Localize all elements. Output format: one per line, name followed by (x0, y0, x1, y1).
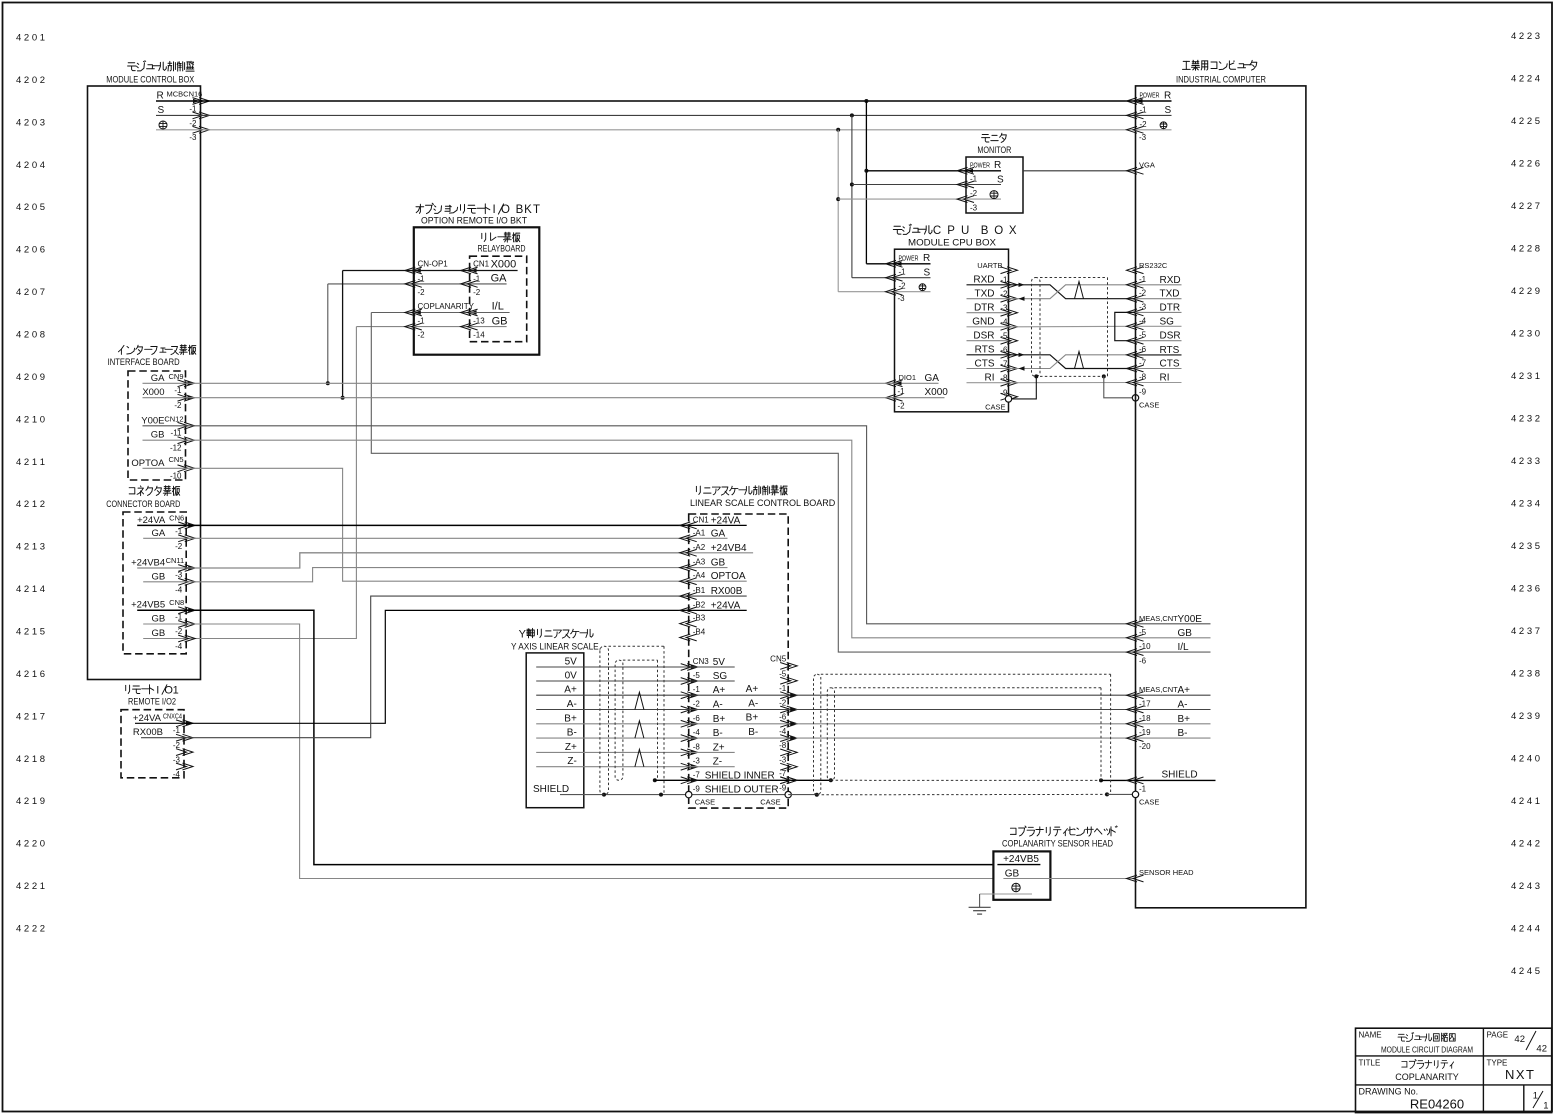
wire earth drop to monitor and CPU (837, 130, 839, 292)
remote pin +24VA CNXC4 (135, 722, 184, 724)
computer pin VGA (1127, 167, 1144, 174)
svg-text:4 2 3 0: 4 2 3 0 (1511, 329, 1540, 340)
svg-text:-20: -20 (1139, 742, 1151, 751)
svg-text:MCBCN16: MCBCN16 (167, 90, 203, 99)
svg-text:GA: GA (491, 273, 508, 285)
svg-text:T: T (533, 204, 540, 216)
svg-text:CASE: CASE (985, 403, 1005, 412)
svg-text:I: I (156, 685, 159, 697)
linear board pin -A4 OPTOA (680, 578, 697, 585)
computer pin -18 B+ (1127, 720, 1144, 727)
svg-text:POWER: POWER (970, 160, 990, 169)
option remote I/O BKT outline (414, 227, 540, 354)
svg-text:CASE: CASE (695, 798, 715, 807)
svg-text:X000: X000 (142, 387, 164, 398)
title block column divider (1482, 1028, 1484, 1112)
svg-text:GA: GA (151, 528, 165, 539)
remote I/O dashed outline (121, 710, 184, 778)
twist symbol A pair (635, 692, 644, 709)
svg-text:O: O (501, 204, 510, 216)
svg-text:ア: ア (711, 486, 722, 498)
wire RXD crossover (1009, 285, 1136, 299)
connector pin GA -1 (143, 537, 186, 539)
svg-text:CNXC4: CNXC4 (163, 711, 182, 720)
svg-text:-6: -6 (779, 713, 787, 722)
junction earth monitor tap (836, 197, 840, 201)
svg-text:K: K (524, 204, 532, 216)
svg-text:RTS: RTS (1160, 345, 1180, 356)
linear scale control board JP title (695, 486, 697, 491)
svg-text:GB: GB (711, 558, 726, 569)
svg-text:-B1: -B1 (693, 586, 706, 595)
svg-text:-A2: -A2 (693, 543, 706, 552)
linear board pin -A3 GB (680, 564, 697, 571)
svg-text:R: R (157, 91, 164, 102)
computer pin -10 I/L (1127, 649, 1144, 656)
svg-text:-10: -10 (1139, 642, 1151, 651)
svg-text:COPLANARITY: COPLANARITY (1395, 1072, 1459, 1082)
svg-text:MEAS,CNT: MEAS,CNT (1139, 685, 1178, 694)
scale cable shield inner box (623, 659, 658, 661)
wire GB-3 route (186, 568, 689, 582)
connector board dashed outline (123, 512, 186, 654)
title block small column divider (1523, 1085, 1525, 1113)
svg-text:CN8: CN8 (169, 598, 184, 607)
svg-text:VGA: VGA (1139, 160, 1155, 169)
svg-text:SHIELD: SHIELD (533, 784, 569, 795)
computer pin -19 B- (1127, 735, 1144, 742)
interface pin GB -11 (143, 439, 186, 441)
svg-text:4 2 3 2: 4 2 3 2 (1511, 414, 1540, 425)
wire B+ through board (689, 723, 789, 725)
wire A+ to computer (788, 694, 1135, 696)
svg-text:4 2 1 4: 4 2 1 4 (16, 584, 45, 595)
svg-text:-1: -1 (970, 175, 978, 184)
svg-text:4 2 1 5: 4 2 1 5 (16, 627, 45, 638)
svg-text:A+: A+ (564, 685, 577, 696)
wire A+ through board (689, 694, 789, 696)
computer pin -8 RI (1127, 379, 1144, 386)
svg-text:-6: -6 (1139, 656, 1147, 665)
svg-text:A+: A+ (746, 684, 759, 695)
svg-text:S: S (158, 105, 165, 116)
linear scale control board dashed outline (689, 514, 789, 808)
twist symbol RTS/CTS pair (1075, 352, 1084, 369)
title block row divider 1 (1356, 1055, 1552, 1057)
svg-text:GB: GB (151, 571, 165, 582)
svg-text:CASE: CASE (1139, 401, 1159, 410)
svg-text:4 2 2 5: 4 2 2 5 (1511, 116, 1540, 127)
title block title JP (1402, 1062, 1407, 1068)
svg-text:-3: -3 (175, 570, 183, 579)
svg-text:4 2 1 0: 4 2 1 0 (16, 414, 45, 425)
module control box JP title (128, 62, 135, 64)
svg-text:GB: GB (151, 430, 165, 441)
svg-text:-8: -8 (693, 742, 701, 751)
scale cable shield outer capsule (600, 646, 609, 794)
right cable shield inner capsule (827, 688, 834, 781)
wire R power bus (201, 100, 1136, 102)
svg-text:REMOTE I/O2: REMOTE I/O2 (128, 697, 176, 708)
svg-text:X: X (1009, 225, 1017, 237)
wire Y00E route to computer (186, 426, 1136, 624)
svg-text:-4: -4 (1139, 316, 1147, 325)
junction S monitor tap (850, 183, 854, 187)
svg-text:-2: -2 (473, 288, 481, 297)
svg-text:-4: -4 (173, 770, 181, 779)
svg-text:-1: -1 (173, 726, 181, 735)
computer pin -1 S (1127, 112, 1144, 119)
computer pin SHIELD (1127, 777, 1144, 784)
svg-text:Z-: Z- (713, 757, 722, 768)
cpu pin UARTB -2 TXD (967, 298, 1009, 300)
svg-text:+24VA: +24VA (137, 515, 166, 526)
svg-text:4 2 0 3: 4 2 0 3 (16, 117, 45, 128)
wire monitor VGA (1023, 170, 1136, 172)
svg-text:42: 42 (1514, 1034, 1525, 1045)
cpu pin UARTB -6 RTS (967, 354, 1009, 356)
computer pin -5 DSR (1127, 337, 1144, 344)
svg-text:RELAYBOARD: RELAYBOARD (478, 244, 526, 255)
cn5 connector pins (780, 663, 797, 670)
svg-text:R: R (923, 253, 930, 264)
svg-text:CONNECTOR BOARD: CONNECTOR BOARD (106, 499, 180, 510)
module cpu box JP title (894, 225, 900, 227)
svg-text:RE04260: RE04260 (1410, 1097, 1464, 1112)
svg-text:U: U (961, 225, 969, 237)
y axis linear scale outline (526, 653, 584, 808)
coplanarity sensor head JP title (1010, 828, 1016, 834)
svg-text:INDUSTRIAL COMPUTER: INDUSTRIAL COMPUTER (1176, 75, 1266, 86)
right cable shield outer box (821, 673, 1111, 675)
svg-text:4 2 0 9: 4 2 0 9 (16, 372, 45, 383)
computer pin -2 earth (1127, 126, 1144, 133)
svg-text:Z+: Z+ (565, 742, 577, 753)
svg-text:4 2 4 0: 4 2 4 0 (1511, 754, 1540, 765)
connector pin GB -1 (143, 623, 186, 625)
svg-text:DIO1: DIO1 (899, 373, 917, 382)
rs232 cable shield capsule (1032, 278, 1041, 377)
svg-text:MEAS,CNT: MEAS,CNT (1139, 614, 1178, 623)
svg-text:-3: -3 (1139, 302, 1147, 311)
svg-text:DSR: DSR (1160, 331, 1181, 342)
svg-text:-5: -5 (1139, 628, 1147, 637)
control box pin R MCBCN16 (156, 100, 201, 102)
wire A- through board (689, 709, 789, 711)
svg-text:RS232C: RS232C (1139, 261, 1168, 270)
computer pin -5 GB (1127, 634, 1144, 641)
svg-text:GB: GB (1178, 628, 1193, 639)
svg-text:-2: -2 (1139, 289, 1147, 298)
svg-text:CN5: CN5 (770, 655, 787, 664)
svg-text:-18: -18 (1139, 714, 1151, 723)
svg-text:A+: A+ (713, 685, 726, 696)
svg-text:-1: -1 (779, 684, 787, 693)
svg-text:-5: -5 (693, 671, 701, 680)
svg-text:-7: -7 (693, 770, 701, 779)
svg-text:4 2 1 2: 4 2 1 2 (16, 499, 45, 510)
wire coplanarity I/L route (371, 313, 1135, 653)
svg-text:B-: B- (748, 727, 758, 738)
svg-text:Y AXIS LINEAR SCALE,: Y AXIS LINEAR SCALE, (511, 642, 601, 652)
wire shield outer (560, 794, 788, 796)
svg-text:-2: -2 (1140, 120, 1148, 129)
wire sensor earth to ground (979, 894, 981, 907)
twist symbol B pair (635, 721, 644, 738)
svg-text:GB: GB (151, 628, 165, 639)
svg-text:4 2 3 7: 4 2 3 7 (1511, 626, 1540, 637)
svg-text:-2: -2 (898, 402, 906, 411)
remote I/O1 JP title (125, 685, 127, 690)
svg-text:Y00E: Y00E (141, 415, 164, 426)
cpu pin UARTB -1 RXD (967, 284, 1009, 286)
svg-text:S: S (1165, 105, 1172, 116)
svg-text:Z+: Z+ (713, 742, 725, 753)
svg-text:ア: ア (552, 629, 563, 641)
svg-text:4 2 0 7: 4 2 0 7 (16, 287, 45, 298)
svg-text:SG: SG (1160, 316, 1175, 327)
svg-text:INTERFACE BOARD: INTERFACE BOARD (108, 357, 180, 368)
wire +24VB4 route (186, 553, 689, 568)
svg-text:-8: -8 (779, 741, 787, 750)
svg-text:-A1: -A1 (693, 528, 706, 537)
wire X000 to cpu (186, 397, 895, 399)
svg-text:POWER: POWER (1140, 91, 1160, 100)
linear board pin -B3 (680, 620, 697, 627)
sensor head earth pin (1012, 883, 1020, 891)
svg-text:4 2 3 1: 4 2 3 1 (1511, 371, 1540, 382)
svg-text:4 2 4 3: 4 2 4 3 (1511, 881, 1540, 892)
svg-text:4 2 1 9: 4 2 1 9 (16, 796, 45, 807)
svg-text:CASE: CASE (1139, 797, 1159, 806)
svg-text:4 2 3 4: 4 2 3 4 (1511, 499, 1540, 510)
remote pin RX00B -1 (141, 737, 184, 739)
connector pin GB -2 (143, 638, 186, 640)
svg-text:A+: A+ (1178, 685, 1191, 696)
svg-text:PAGE: PAGE (1487, 1031, 1509, 1040)
svg-text:GA: GA (151, 373, 165, 384)
svg-text:GB: GB (151, 614, 165, 625)
svg-text:4 2 4 5: 4 2 4 5 (1511, 966, 1540, 977)
svg-text:UARTB: UARTB (977, 261, 1002, 270)
svg-text:-6: -6 (693, 714, 701, 723)
interface pin GA CN9 (143, 382, 186, 384)
svg-text:-5: -5 (1139, 331, 1147, 340)
svg-text:4 2 1 7: 4 2 1 7 (16, 711, 45, 722)
svg-text:-1: -1 (1139, 275, 1147, 284)
computer CASE circle top (1132, 395, 1138, 401)
svg-text:CN5: CN5 (168, 455, 183, 464)
svg-text:SENSOR HEAD: SENSOR HEAD (1139, 868, 1194, 877)
svg-text:B-: B- (567, 728, 577, 739)
interface board dashed outline (128, 371, 186, 480)
wire +24VA to linear board (186, 524, 689, 526)
svg-text:-B3: -B3 (693, 614, 706, 623)
svg-text:CN9: CN9 (168, 372, 183, 381)
arrow RTS out of cpu (1019, 353, 1025, 357)
linear board pin -A1 GA (680, 535, 697, 542)
svg-text:B-: B- (1178, 728, 1188, 739)
ground symbol (969, 906, 991, 908)
svg-text:COPLANARITY SENSOR HEAD: COPLANARITY SENSOR HEAD (1002, 839, 1113, 849)
svg-text:CTS: CTS (975, 358, 995, 369)
svg-text:DSR: DSR (973, 331, 994, 342)
svg-text:B: B (981, 225, 989, 237)
svg-text:4 2 2 7: 4 2 2 7 (1511, 201, 1540, 212)
svg-text:-2: -2 (175, 542, 183, 551)
computer pin -17 A- (1127, 706, 1144, 713)
svg-text:+24VB5: +24VB5 (1003, 854, 1039, 865)
wire A- to computer (788, 709, 1135, 711)
wire GA to linear board (186, 537, 689, 539)
wire RX00B route (184, 596, 689, 738)
svg-text:I/L: I/L (1178, 642, 1190, 653)
svg-text:CTS: CTS (1160, 359, 1180, 370)
svg-text:+24VB4: +24VB4 (711, 543, 747, 554)
svg-text:Y: Y (519, 629, 527, 641)
svg-text:-3: -3 (779, 756, 787, 765)
monitor pin -1 S (852, 184, 966, 186)
svg-text:4 2 0 8: 4 2 0 8 (16, 330, 45, 341)
wire +24VB5 route to sensor head (186, 610, 993, 864)
svg-text:OPTOA: OPTOA (131, 458, 165, 469)
cpu pin UARTB -5 DSR (967, 340, 1009, 342)
svg-text:RI: RI (985, 373, 995, 384)
svg-text:-1: -1 (1140, 105, 1148, 114)
wire B- to computer (788, 737, 1135, 739)
svg-text:GA: GA (925, 373, 940, 384)
wire GND-SG (1009, 325, 1136, 328)
linear board pin -B1 RX00B (680, 593, 697, 600)
svg-text:A-: A- (567, 699, 577, 710)
svg-text:I/L: I/L (492, 301, 504, 313)
svg-text:-2: -2 (693, 700, 701, 709)
svg-text:O: O (994, 225, 1003, 237)
svg-text:4 2 0 1: 4 2 0 1 (16, 33, 45, 44)
title block name JP (1399, 1033, 1405, 1035)
svg-text:-3: -3 (1139, 133, 1147, 142)
svg-text:CN-OP1: CN-OP1 (418, 260, 449, 269)
svg-text:CN1: CN1 (693, 515, 710, 524)
svg-text:COPLANARITY: COPLANARITY (418, 302, 475, 311)
linear board pin -B4 (680, 634, 697, 641)
wire shield inner (653, 778, 657, 782)
wire B- through board (689, 737, 789, 739)
svg-text:4 2 0 5: 4 2 0 5 (16, 202, 45, 213)
scale cable shield inner capsule (615, 660, 623, 780)
linear board pin -B2 +24VA (680, 607, 697, 614)
svg-text:4 2 2 4: 4 2 2 4 (1511, 74, 1540, 85)
wire RI (1009, 382, 1136, 384)
svg-text:-2: -2 (174, 401, 182, 410)
svg-text:4 2 2 1: 4 2 2 1 (16, 881, 45, 892)
svg-text:4 2 3 6: 4 2 3 6 (1511, 584, 1540, 595)
svg-text:+24VA: +24VA (711, 600, 741, 611)
arrow TXD into cpu (1019, 297, 1025, 301)
svg-text:TITLE: TITLE (1359, 1059, 1381, 1068)
relayboard JP title (481, 233, 483, 238)
svg-text:RX00B: RX00B (133, 727, 163, 738)
svg-text:CN11: CN11 (166, 556, 185, 565)
wire shield outer dotted extension (817, 793, 1111, 795)
cpu pin CASE (1005, 396, 1011, 402)
svg-text:4 2 0 6: 4 2 0 6 (16, 245, 45, 256)
svg-text:4 2 0 4: 4 2 0 4 (16, 160, 45, 171)
wire CN-OP1 to CN1 X000 (343, 270, 470, 272)
wire COPLANARITY to I/L (371, 312, 469, 314)
coplanarity sensor head outline (993, 851, 1050, 899)
svg-text:B+: B+ (1178, 714, 1191, 725)
svg-text:-1: -1 (175, 613, 183, 622)
linear board pin CN1 +24VA (680, 522, 697, 529)
computer pin MEAS,CNT A+ (1127, 692, 1144, 699)
svg-text:-2: -2 (970, 189, 978, 198)
svg-text:4 2 2 6: 4 2 2 6 (1511, 159, 1540, 170)
svg-text:-2: -2 (779, 698, 787, 707)
wire earth power bus (201, 129, 1136, 131)
svg-text:4 2 2 9: 4 2 2 9 (1511, 286, 1540, 297)
svg-text:-17: -17 (1139, 700, 1151, 709)
connector pin GB -3 (143, 581, 186, 583)
svg-text:4 2 0 2: 4 2 0 2 (16, 75, 45, 86)
cpu pin -1 S (852, 277, 895, 279)
svg-text:-1: -1 (898, 387, 906, 396)
svg-text:-19: -19 (1139, 728, 1151, 737)
svg-text:1: 1 (1533, 1091, 1538, 1102)
wire GA vertical drop (327, 284, 329, 383)
svg-text:+24VA: +24VA (711, 515, 741, 526)
relayboard dashed outline (470, 256, 527, 342)
interface board JP title (118, 345, 124, 351)
svg-text:-2: -2 (899, 282, 907, 291)
svg-text:4 2 2 3: 4 2 2 3 (1511, 31, 1540, 42)
svg-text:-4: -4 (693, 728, 701, 737)
svg-text:4 2 1 3: 4 2 1 3 (16, 542, 45, 553)
svg-text:4 2 2 8: 4 2 2 8 (1511, 244, 1540, 255)
industrial computer JP title (1183, 60, 1189, 62)
wire sensor GB to computer (1050, 878, 1135, 880)
wire TXD crossover (1009, 285, 1136, 299)
svg-text:S: S (997, 175, 1004, 186)
cpu pin UARTB -3 DTR (967, 312, 1009, 314)
cpu pin UARTB -7 CTS (967, 368, 1009, 370)
shield drop to computer case (1102, 374, 1106, 378)
cpu pin POWER R (866, 263, 894, 265)
svg-text:-9: -9 (779, 783, 787, 792)
connector pin +24VB5 CN8 (137, 609, 186, 611)
svg-text:4 2 1 8: 4 2 1 8 (16, 754, 45, 765)
svg-text:A-: A- (713, 700, 723, 711)
svg-text:X000: X000 (925, 387, 949, 398)
svg-text:ケ: ケ (728, 485, 739, 498)
svg-text:-12: -12 (170, 444, 182, 453)
svg-text:MODULE CONTROL BOX: MODULE CONTROL BOX (106, 75, 195, 86)
svg-text:-2: -2 (418, 288, 426, 297)
svg-text:-9: -9 (1139, 388, 1147, 397)
svg-text:-B2: -B2 (693, 600, 706, 609)
svg-text:-1: -1 (175, 527, 183, 536)
svg-text:OPTOA: OPTOA (711, 571, 746, 582)
svg-text:4 2 3 5: 4 2 3 5 (1511, 541, 1540, 552)
svg-text:4 2 1 6: 4 2 1 6 (16, 669, 45, 680)
title block row divider 2 (1356, 1084, 1552, 1086)
svg-text:4 2 4 1: 4 2 4 1 (1511, 796, 1540, 807)
computer pin -7 CTS (1127, 365, 1144, 372)
svg-text:4 2 3 9: 4 2 3 9 (1511, 711, 1540, 722)
wire S drop to monitor and CPU (851, 115, 853, 277)
svg-text:RX00B: RX00B (711, 586, 743, 597)
svg-text:-1: -1 (174, 386, 182, 395)
